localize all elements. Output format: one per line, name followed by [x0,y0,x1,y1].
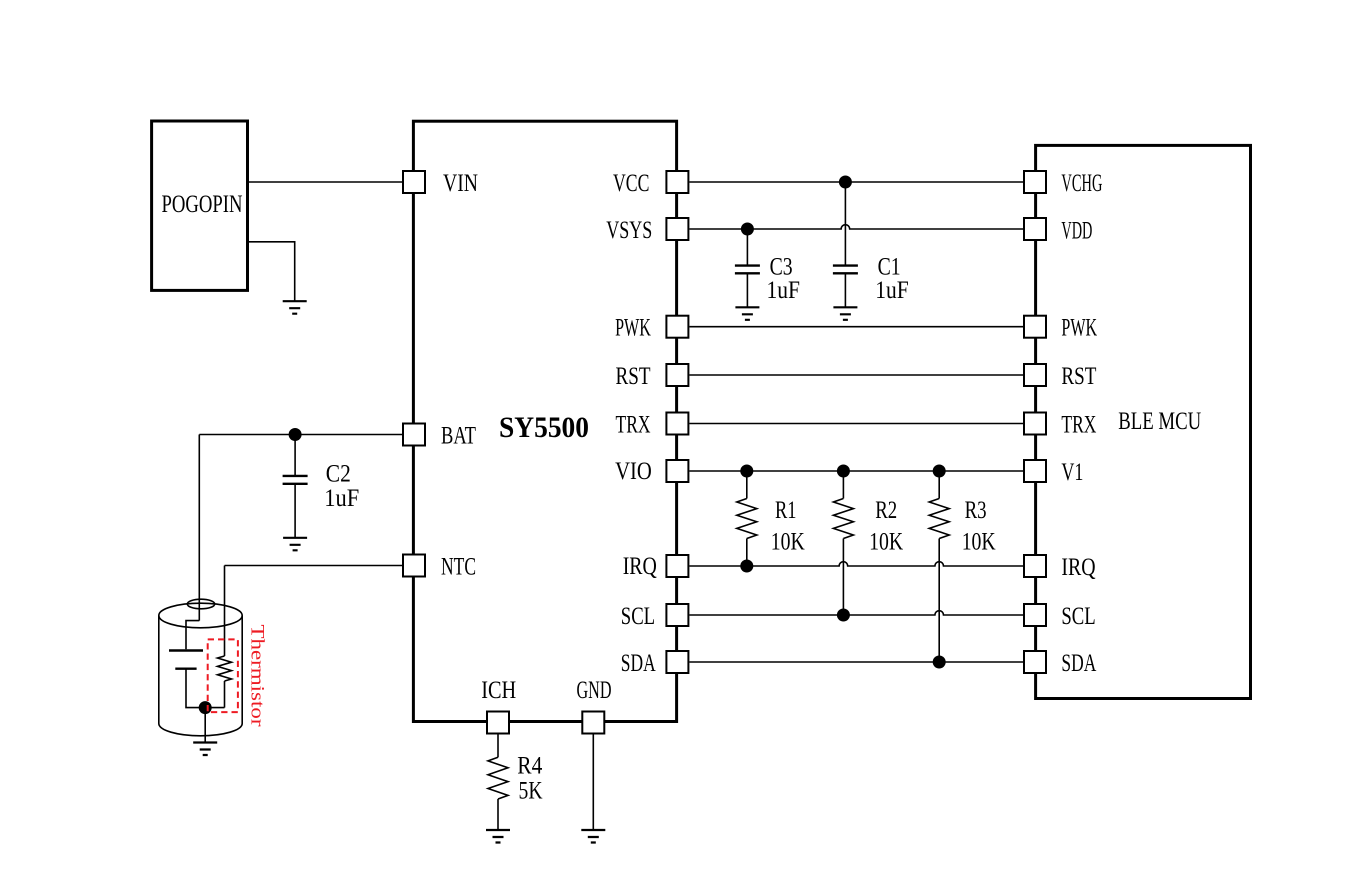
wire IRQ net with hops over R2 R3 [689,562,1023,566]
resistor R4 bottom wire [497,799,499,830]
svg-text:10K: 10K [962,529,996,556]
svg-text:VCC: VCC [613,170,649,197]
wire RST net [689,374,1023,376]
POGOPIN connector box J1 [152,121,248,290]
svg-text:V1: V1 [1061,459,1083,486]
resistor R4 wire from ICH [497,735,499,758]
ground (battery) [193,743,217,756]
pin IRQ (MCU) [1024,555,1046,577]
R3 value label [962,497,996,556]
battery minus wire to junction [186,669,225,708]
wire VCC to VCHG [689,181,1023,183]
svg-text:GND: GND [577,677,612,704]
wire NTC net [225,565,403,567]
thermistor RT1 wire from NTC [224,566,226,657]
wire GND pin to ground [592,735,594,831]
svg-text:R2: R2 [875,497,897,524]
R1 value label [771,497,805,556]
junction dot battery ground [199,701,212,714]
svg-text:BAT: BAT [441,423,476,450]
svg-text:R1: R1 [775,497,797,524]
wire POGOPIN to VIN [248,181,403,183]
svg-text:RST: RST [1061,363,1096,390]
resistor R1 [737,471,757,566]
svg-text:IRQ: IRQ [623,553,657,580]
junction dot IRQ/R1 [740,560,753,573]
battery plate long [169,649,203,651]
ground (C1) [833,307,857,320]
ground (R4) [486,830,510,843]
svg-text:1uF: 1uF [767,277,801,304]
svg-text:10K: 10K [771,529,805,556]
svg-text:VSYS: VSYS [606,217,652,244]
junction dot VSYS/C3 [741,223,754,236]
svg-text:1uF: 1uF [324,485,359,512]
junction dot VIO/R2 [837,465,850,478]
C3 value label [767,253,801,304]
pin IRQ (left IC) [666,555,688,577]
resistor R4 zigzag [488,757,508,799]
svg-text:10K: 10K [869,529,903,556]
thermistor bottom wire [224,681,226,708]
svg-text:Thermistor: Thermistor [247,625,268,728]
pin SCL (MCU) [1024,604,1046,626]
wire VIO to V1 [689,470,1023,472]
pin BAT [403,424,425,446]
pin V1 (MCU) [1024,460,1046,482]
svg-text:VIO: VIO [615,458,652,485]
pin VCHG (MCU) [1024,171,1046,193]
IC U1 SY5500 body [413,121,676,721]
pin RST (left IC) [666,364,688,386]
svg-text:TRX: TRX [1061,412,1096,439]
wire PWK net [689,326,1023,328]
svg-text:VCHG: VCHG [1061,170,1102,197]
pin VSYS [666,218,688,240]
pin TRX (MCU) [1024,413,1046,435]
pin SDA (MCU) [1024,651,1046,673]
pin SDA (left IC) [666,651,688,673]
svg-text:SCL: SCL [621,603,655,630]
C1 value label [875,253,909,304]
svg-text:SCL: SCL [1061,603,1095,630]
svg-text:VIN: VIN [443,170,478,197]
junction dot VIO/R3 [933,465,946,478]
svg-text:BLE MCU: BLE MCU [1118,408,1201,435]
battery cell BT1 cylinder [159,599,242,736]
svg-text:1uF: 1uF [875,277,909,304]
wire POGOPIN to ground [248,242,295,301]
capacitor C2 [283,435,308,538]
pin VIN [403,171,425,193]
resistor R3 [929,471,949,662]
svg-text:TRX: TRX [616,412,651,439]
battery plate short [175,668,196,670]
svg-text:SDA: SDA [621,650,656,677]
svg-text:POGOPIN: POGOPIN [162,191,243,218]
wire TRX net [689,423,1023,425]
pin VIO [666,460,688,482]
svg-text:5K: 5K [519,778,543,805]
capacitor C1 [833,182,858,307]
wire BAT down to battery [198,435,200,621]
pin SCL (left IC) [666,604,688,626]
junction dot VCC/C1 [839,176,852,189]
wire VSYS to VDD with hop over C1 [689,225,1023,229]
R4 value label [517,753,542,805]
svg-text:SDA: SDA [1061,650,1096,677]
svg-text:ICH: ICH [481,677,516,704]
pin GND [582,712,604,734]
wire SDA net [689,661,1023,663]
pin VCC [666,171,688,193]
junction dot SCL/R2 [837,609,850,622]
svg-text:C2: C2 [326,460,351,487]
ground (C2) [283,538,307,551]
thermistor RT1 zigzag [218,656,232,681]
wire BAT net [199,434,402,436]
svg-text:R4: R4 [517,753,542,780]
svg-text:RST: RST [616,363,651,390]
pin PWK (MCU) [1024,316,1046,338]
pin RST (MCU) [1024,364,1046,386]
junction dot BAT/C2 [289,428,302,441]
svg-text:NTC: NTC [441,554,476,581]
wire to ground (battery) [204,708,206,743]
R2 value label [869,497,903,556]
ground (POGOPIN) [283,301,307,314]
pin ICH [487,712,509,734]
svg-text:VDD: VDD [1061,218,1092,245]
battery plus plate wire [186,621,199,650]
svg-text:PWK: PWK [1061,315,1097,342]
svg-text:R3: R3 [965,497,987,524]
svg-text:PWK: PWK [615,315,651,342]
wire SCL net with hop over R3 [689,611,1023,615]
junction dot SDA/R3 [933,656,946,669]
svg-text:IRQ: IRQ [1061,554,1095,581]
svg-text:SY5500: SY5500 [499,411,589,444]
ground (C3) [735,307,759,320]
BLE MCU box U2 [1036,145,1251,698]
capacitor C3 [735,229,760,307]
pin NTC [403,555,425,577]
ground (GND pin) [581,830,605,843]
pin VDD (MCU) [1024,218,1046,240]
pin TRX (left IC) [666,413,688,435]
junction dot VIO/R1 [740,465,753,478]
thermistor red dashed outline [208,639,238,712]
resistor R2 [833,471,853,615]
pin PWK (left IC) [666,316,688,338]
C2 value label [324,460,359,511]
